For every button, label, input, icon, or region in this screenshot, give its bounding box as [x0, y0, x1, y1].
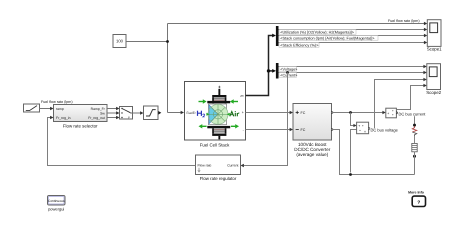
wire switch to saturation: [133, 111, 144, 114]
svg-text:<Utilization (%) [O2(Yellow);: <Utilization (%) [O2(Yellow); H2(Magenta…: [280, 30, 354, 34]
svg-text:?: ?: [417, 200, 420, 206]
svg-text:Flow rate selector: Flow rate selector: [63, 124, 98, 129]
wire Current to Scope2 in2: [279, 71, 427, 78]
svg-text:+: +: [387, 111, 389, 115]
svg-text:More Info: More Info: [408, 191, 424, 195]
svg-text:F: F: [128, 116, 130, 120]
svg-text:Flow rate: Flow rate: [198, 163, 212, 167]
svg-text:Fr_reg_out: Fr_reg_out: [88, 116, 105, 120]
svg-text:FuelFr: FuelFr: [187, 111, 197, 115]
label DC bus current: [398, 112, 426, 117]
node junction constant: [166, 40, 169, 43]
fuel cell icon: membrane square and sphere: [208, 104, 228, 125]
bus wire from stack m to bus selectors: [246, 34, 277, 96]
voltage measurement output nub: [369, 127, 372, 130]
wire converter - output bottom rail: [332, 130, 415, 175]
svg-text:(average value): (average value): [296, 152, 328, 157]
wire Utilization to Scope1 in2: [279, 28, 428, 35]
svg-text:DC bus voltage: DC bus voltage: [371, 128, 399, 133]
subsystem: 100Vdc Boost DC/DC Converter: [293, 104, 332, 157]
label DC bus voltage: [370, 128, 399, 133]
wire to FuelFr input: [168, 111, 185, 114]
fuel cell icon: small inlet arrows at membrane: [206, 113, 229, 116]
resistor R (red zigzag): [412, 126, 416, 132]
wire Sw to switch in2: [107, 111, 120, 114]
Scope1 block: [427, 20, 442, 52]
voltage measurement block DC bus voltage: [357, 122, 369, 134]
switch block: [120, 107, 133, 120]
svg-text:Scope2: Scope2: [426, 90, 441, 95]
fuel cell icon: Air inlet arrow (top right): [230, 99, 238, 103]
svg-text:+: +: [358, 124, 360, 128]
saturation block: [144, 106, 159, 120]
svg-text:<Stack consumption (lpm) [Air(: <Stack consumption (lpm) [Air(Yellow); F…: [280, 36, 375, 40]
wire load bottom to rail: [414, 152, 416, 175]
svg-text:Scope1: Scope1: [427, 47, 442, 52]
wire series out to RL load: [396, 113, 414, 125]
wire tap down to voltage measurement +: [351, 113, 357, 128]
node junction voltage + tap: [349, 111, 352, 114]
wire Ramp_Fr to switch in1: [107, 107, 120, 110]
svg-text:<Stack Efficiency (%)>: <Stack Efficiency (%)>: [280, 43, 319, 47]
wire Stack consumption to Scope1 in3: [279, 34, 428, 41]
bus selector 2: [276, 63, 279, 79]
RL load branch: node bottom: [413, 155, 416, 158]
wire voltage measurement - to bottom rail: [351, 130, 357, 173]
svg-text:FC: FC: [301, 128, 306, 132]
svg-text:Fuel flow rate (lpm): Fuel flow rate (lpm): [41, 100, 73, 104]
fuel cell icon: H2 inlet arrow (top left): [199, 99, 207, 103]
wire Stack Efficiency to Scope1 in4: [279, 41, 428, 48]
svg-text:Current: Current: [227, 163, 238, 167]
node junction bottom rail voltage -: [349, 173, 352, 176]
svg-text:+: +: [218, 84, 221, 89]
wire converter + output rail: [332, 111, 386, 114]
wire junction vertical: [167, 24, 169, 113]
wire constant 100 to junction: [126, 41, 168, 43]
svg-text:Fuel flow rate (lpm): Fuel flow rate (lpm): [388, 19, 420, 23]
wire ramp to selector, signal label Fuel flow rate (lpm): [40, 100, 73, 110]
svg-text:Continuous: Continuous: [48, 199, 65, 203]
converter - output port nub: [332, 128, 335, 131]
wire stack - to converter -FC: [246, 128, 294, 131]
converter + output port nub: [332, 111, 335, 114]
svg-text:<Current>: <Current>: [280, 73, 298, 77]
powergui block Continuous: [48, 196, 66, 212]
svg-text:m: m: [241, 94, 244, 98]
wire current tap to regulator Current input: [241, 73, 288, 168]
svg-text:<Voltage>: <Voltage>: [280, 67, 298, 71]
subsystem: Flow rate selector: [54, 105, 108, 129]
bus selector 1: [276, 26, 279, 46]
current measurement series output nub: [396, 111, 399, 114]
svg-text:100: 100: [116, 39, 124, 44]
svg-text:Sw: Sw: [100, 111, 105, 115]
wire Fr_reg_out to switch in3: [107, 116, 120, 119]
wire R to L: [414, 136, 416, 143]
constant block 100: [113, 35, 126, 48]
wire v output to Scope2 in3: [369, 78, 427, 129]
inductor L (coil): [412, 143, 417, 151]
svg-text:FC: FC: [301, 111, 306, 115]
RL load branch: node top: [413, 124, 416, 127]
subsystem: Flow rate regulator: [196, 155, 241, 181]
svg-text:Flow rate regulator: Flow rate regulator: [200, 176, 237, 181]
svg-text:+: +: [242, 111, 244, 115]
fuel cell icon: bottom electrode - terminal: [207, 126, 230, 139]
node junction current tap: [286, 71, 289, 74]
fuel cell icon: Air outlet arrow (bottom right): [231, 124, 239, 128]
Scope2 block: [426, 64, 441, 95]
svg-text:Fr_reg_in: Fr_reg_in: [56, 116, 71, 120]
saturation unconnected output port nub: [158, 111, 161, 115]
fuel cell icon: H2 label: [198, 111, 205, 117]
fuel cell icon: Air label: [230, 111, 240, 116]
svg-text:DC bus current: DC bus current: [399, 112, 427, 117]
svg-text:Fuel Cell Stack: Fuel Cell Stack: [200, 142, 230, 147]
svg-text:ramp: ramp: [56, 107, 64, 111]
wire Voltage to Scope2 in1: [279, 65, 427, 72]
current measurement block DC bus current: [386, 108, 397, 118]
svg-text:Ramp_Fr: Ramp_Fr: [91, 107, 106, 111]
fuel cell icon: H2 outlet arrow (bottom left): [199, 124, 207, 128]
svg-text:powergui: powergui: [48, 207, 64, 212]
wire i output to Scope2 in4: [396, 84, 426, 110]
wire to Scope1 in1: [168, 19, 428, 25]
fuel cell icon: top electrode + terminal: [207, 84, 230, 103]
wire regulator Flow rate to selector Fr_reg_in: [48, 116, 196, 166]
ramp source block: [24, 104, 40, 112]
wire stack + to converter +FC: [246, 111, 294, 114]
fuel cell stack block: [185, 82, 246, 148]
More Info block: [408, 191, 425, 207]
